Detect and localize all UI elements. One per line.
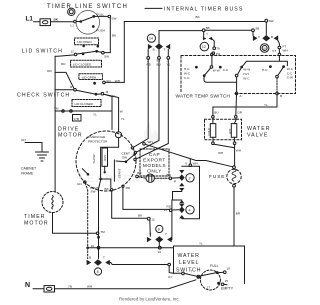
- wire motor top bus: [101, 146, 119, 148]
- node temp top terminal 7A: [211, 53, 214, 56]
- wire cam6 diamond down: [158, 243, 160, 247]
- node BU: [212, 110, 219, 118]
- svg-text:12: 12: [202, 45, 206, 49]
- label START: [117, 168, 121, 178]
- label DRIVE MOTOR: [58, 127, 83, 139]
- contact temp dot A2: [219, 66, 222, 69]
- svg-text:GY: GY: [168, 275, 172, 279]
- svg-text:9: 9: [185, 161, 187, 165]
- svg-text:15: 15: [225, 279, 229, 283]
- label CENT SW lower: [90, 186, 99, 194]
- node SW buss end: [265, 19, 274, 23]
- label LID CLOSED: [73, 63, 92, 67]
- wire SW to cam10: [265, 22, 267, 35]
- cam8 contacts: [87, 259, 110, 265]
- overload protector pill: [115, 132, 121, 138]
- svg-text:VALVE: VALVE: [247, 133, 268, 139]
- wire motor feed RD: [134, 59, 149, 147]
- wire cap dashed left: [138, 177, 146, 178]
- wire temp A to valve OR: [235, 95, 238, 116]
- svg-text:SW: SW: [91, 189, 96, 193]
- cam 10 group: [260, 44, 269, 53]
- label LID CLOSED: [75, 102, 94, 106]
- contact cam12 pair: [203, 37, 212, 41]
- wire left drop lid switch: [55, 55, 74, 56]
- svg-text:17B: 17B: [74, 117, 79, 121]
- svg-text:N: N: [25, 282, 30, 289]
- svg-text:2: 2: [189, 176, 191, 180]
- node N: [25, 282, 30, 289]
- wire motor to fuse WH: [145, 144, 233, 167]
- svg-text:YL: YL: [112, 94, 116, 98]
- wire FT to temp box: [278, 49, 280, 53]
- wire TM branch: [55, 110, 112, 112]
- wire N to connector: [33, 288, 44, 290]
- wire temp internal bus: [204, 77, 237, 82]
- label CHECK SWITCH: [17, 92, 70, 98]
- water temp switch box: [181, 56, 296, 94]
- svg-text:16: 16: [227, 266, 231, 270]
- label WATER VALVE: [247, 126, 271, 139]
- svg-text:FT: FT: [273, 49, 277, 53]
- node temp top terminal FT: [278, 53, 281, 56]
- node temp sw1 contact: [210, 66, 213, 69]
- wire motor RD to 27: [123, 188, 169, 210]
- svg-text:START: START: [117, 168, 121, 178]
- capacitor C1: [146, 174, 154, 182]
- wire M feed into pill: [104, 94, 119, 147]
- contact temp sw3 dot: [282, 65, 285, 68]
- svg-text:SLOW: SLOW: [92, 154, 96, 163]
- label BK: [138, 213, 143, 217]
- svg-text:7: 7: [165, 232, 167, 236]
- wire internal timer buss: [124, 21, 264, 23]
- wire valve bottoms: [213, 137, 235, 142]
- node SW: [108, 15, 116, 20]
- label 7: [103, 255, 105, 259]
- svg-text:EMPTY: EMPTY: [221, 286, 234, 290]
- label temp cluster mid: [243, 68, 250, 81]
- svg-text:T: T: [258, 35, 260, 39]
- wire temp B stub dashed: [276, 78, 278, 92]
- svg-text:L1: L1: [26, 16, 34, 23]
- label temp cluster right: [287, 67, 294, 79]
- svg-text:RD: RD: [147, 62, 152, 66]
- svg-text:GN: GN: [77, 182, 82, 186]
- svg-text:BR: BR: [137, 171, 142, 175]
- wire contact to M: [97, 93, 101, 95]
- wire SW down: [104, 18, 110, 53]
- svg-text:RD: RD: [126, 186, 131, 190]
- label temp HC: [262, 68, 268, 72]
- node L1 terminal: [71, 20, 77, 27]
- wire GN drop: [85, 183, 87, 259]
- bracket cam2 cam4: [173, 192, 182, 201]
- label WH: [218, 151, 223, 155]
- switch wiper temp1: [205, 68, 211, 75]
- svg-text:TIMER: TIMER: [24, 214, 46, 220]
- svg-text:WATER: WATER: [247, 126, 271, 132]
- svg-text:OR: OR: [237, 110, 242, 114]
- wire cam8 right to WL: [109, 263, 181, 274]
- svg-text:BR: BR: [167, 173, 172, 177]
- svg-text:27: 27: [164, 208, 168, 212]
- svg-text:PUSH: PUSH: [96, 28, 105, 32]
- svg-text:12: 12: [151, 217, 155, 221]
- label WH: [87, 284, 92, 288]
- svg-text:16: 16: [158, 250, 162, 254]
- label YL: [93, 112, 97, 116]
- svg-text:FULL: FULL: [210, 264, 219, 268]
- svg-text:5B: 5B: [206, 26, 210, 30]
- cam number 0: [68, 8, 75, 15]
- node FT: [273, 45, 288, 53]
- svg-text:SW: SW: [269, 19, 274, 23]
- svg-text:17: 17: [207, 286, 211, 290]
- wire cam6 right up: [171, 200, 174, 240]
- wire cap dashed right: [155, 177, 170, 179]
- label LID SWITCH: [22, 49, 63, 55]
- wire RD branch to check switch: [55, 72, 74, 88]
- bracket contacts: [179, 188, 184, 203]
- label T: [164, 47, 166, 51]
- ground cabinet frame: [36, 152, 49, 161]
- wire motor lower left: [82, 169, 88, 175]
- svg-text:MOTOR: MOTOR: [24, 221, 49, 227]
- svg-text:9: 9: [150, 232, 152, 236]
- wire 5B2 to cam10 left: [252, 32, 254, 36]
- timer line switch rotary: [76, 10, 100, 34]
- wire 5B down to cam12: [203, 32, 205, 37]
- node motor WH terminal: [143, 143, 146, 146]
- node motor feed1 terminal: [131, 147, 133, 149]
- switch wiper cent: [116, 155, 134, 162]
- wire RD27 to cam4: [172, 209, 179, 211]
- svg-text:WH: WH: [236, 148, 241, 152]
- svg-text:PROTECTOR: PROTECTOR: [88, 139, 108, 143]
- node 15: [221, 279, 228, 286]
- svg-text:Rendered by LeadVenture, Inc.: Rendered by LeadVenture, Inc.: [119, 297, 180, 302]
- wire GY into pivot: [184, 273, 197, 276]
- label BK on buss: [196, 15, 201, 19]
- wire fuse down: [233, 187, 235, 246]
- svg-text:BU: BU: [214, 110, 218, 114]
- wire motor BK to 12: [101, 179, 148, 218]
- cam14 contacts: [148, 43, 170, 49]
- contact GN bus dot: [86, 246, 89, 249]
- svg-text:FUSE: FUSE: [209, 174, 225, 180]
- connector neutral: [44, 286, 55, 292]
- svg-text:YL: YL: [264, 103, 268, 107]
- svg-text:L1: L1: [71, 24, 75, 28]
- drive motor dashed circle: [76, 131, 136, 191]
- node TM terminals: [62, 110, 73, 113]
- contact cent dot: [133, 153, 136, 156]
- svg-text:W-W: W-W: [243, 68, 250, 72]
- water level switch box: [174, 246, 245, 284]
- node M: [101, 90, 109, 95]
- svg-text:WATER: WATER: [178, 253, 200, 259]
- wire motor feed YL: [136, 59, 168, 159]
- wire valve left to WH9: [214, 144, 234, 147]
- svg-text:C-W: C-W: [287, 76, 293, 80]
- node SW lid: [102, 51, 110, 58]
- title TIMER LINE SWITCH: [47, 4, 128, 10]
- svg-text:4: 4: [189, 208, 191, 212]
- svg-text:WH: WH: [193, 161, 198, 165]
- node GY terminal: [168, 263, 173, 278]
- svg-text:WH: WH: [218, 151, 223, 155]
- svg-text:INTERNAL TIMER BUSS: INTERNAL TIMER BUSS: [164, 7, 243, 13]
- label WATER LEVEL SWITCH: [176, 253, 201, 273]
- svg-text:LID CLOSED: LID CLOSED: [73, 63, 92, 67]
- wire connector to L1 terminal: [51, 21, 74, 23]
- svg-text:YL: YL: [199, 241, 203, 245]
- label LID OPEN: [82, 76, 96, 80]
- node 16 junction left: [91, 244, 100, 249]
- svg-text:CABINET: CABINET: [21, 167, 37, 171]
- svg-text:M: M: [106, 90, 109, 94]
- svg-text:RES: RES: [103, 155, 107, 161]
- timer motor coil: [52, 196, 53, 210]
- wire temp sw2 stem: [236, 77, 238, 82]
- label Y: [206, 32, 208, 36]
- label RD: [122, 185, 124, 187]
- fuse element: [232, 169, 236, 181]
- lid switch open box: [75, 38, 99, 45]
- node cam14 t3: [167, 57, 171, 67]
- node temp sw2 pivot: [235, 74, 238, 77]
- node BR right: [167, 173, 177, 183]
- wire full to 16: [219, 271, 224, 273]
- svg-text:8: 8: [97, 270, 99, 274]
- fuse: [227, 169, 241, 183]
- label LID OPEN: [77, 40, 91, 44]
- wire motor feed BU: [137, 59, 159, 152]
- connector (line fuse) L1: [40, 19, 51, 26]
- node valve bottom left: [212, 142, 215, 145]
- label YL: [121, 117, 125, 121]
- svg-text:LID CLOSED: LID CLOSED: [75, 102, 94, 106]
- svg-text:W-C: W-C: [243, 76, 250, 80]
- svg-text:EXPORT: EXPORT: [143, 158, 166, 164]
- wire cam10 right to FT: [278, 40, 280, 46]
- svg-text:CHECK SWITCH: CHECK SWITCH: [17, 92, 70, 98]
- cam10 contacts: [253, 35, 278, 41]
- node TM terminal lower: [96, 230, 105, 235]
- svg-text:SW: SW: [122, 156, 127, 160]
- label OVERLOAD PROTECTOR: [88, 135, 108, 143]
- svg-text:T: T: [164, 47, 166, 51]
- label CENT SW: [122, 152, 131, 160]
- label BK: [112, 34, 117, 38]
- node motor feed3 terminal: [134, 158, 136, 160]
- cam 6 group: [156, 225, 163, 232]
- node GN motor: [77, 181, 86, 186]
- node RD27: [164, 205, 172, 213]
- node OR: [235, 110, 243, 118]
- label SLOW: [92, 154, 96, 163]
- wire motor center bottom down: [99, 180, 101, 259]
- cam 2: [186, 174, 194, 182]
- label 7: [165, 232, 167, 236]
- svg-text:B: B: [89, 255, 91, 259]
- node WL pivot: [197, 275, 200, 278]
- wire temp upper link: [243, 56, 288, 66]
- node cam14 t1: [147, 57, 152, 67]
- node L1: [26, 16, 34, 23]
- pressure dome dashed: [200, 270, 220, 290]
- connector 17B box: [73, 115, 82, 122]
- wire 16 bus: [88, 247, 174, 249]
- wire L1 to connector: [34, 21, 41, 23]
- node 16 WL: [224, 266, 231, 273]
- node fuse top: [233, 166, 236, 169]
- wire buss corner down: [123, 22, 125, 83]
- contact temp sw1 pivot: [203, 74, 206, 77]
- svg-text:B: B: [280, 94, 282, 98]
- svg-text:14: 14: [149, 37, 153, 41]
- coil cold: [207, 124, 216, 138]
- node SO: [103, 79, 120, 84]
- wire terminal to wiper root: [76, 21, 80, 23]
- svg-text:BR: BR: [236, 212, 241, 216]
- node 16: [158, 246, 162, 254]
- svg-text:12: 12: [71, 49, 75, 53]
- contact FULL: [210, 264, 219, 274]
- contact temp sw2 dot: [240, 66, 243, 69]
- svg-text:FRAME: FRAME: [21, 172, 34, 176]
- svg-text:LID OPEN: LID OPEN: [82, 76, 96, 80]
- label temp cluster left: [184, 67, 191, 80]
- wire timer motor down: [53, 213, 97, 234]
- wire empty stub: [224, 283, 227, 286]
- water valve box: [205, 119, 242, 140]
- contact cent pivot: [125, 160, 128, 163]
- svg-text:RD: RD: [47, 69, 52, 73]
- svg-text:T: T: [103, 255, 105, 259]
- label BK: [54, 18, 59, 22]
- svg-text:H-H: H-H: [243, 72, 249, 76]
- svg-text:W: W: [120, 109, 123, 113]
- svg-text:Y: Y: [206, 32, 208, 36]
- svg-text:TM: TM: [54, 106, 59, 110]
- node WH9 terminal: [185, 161, 197, 166]
- svg-text:BK: BK: [54, 18, 59, 22]
- wire res bottom: [104, 166, 106, 171]
- switch wiper WL full: [200, 273, 216, 276]
- wire M down motor feed: [104, 94, 112, 129]
- svg-text:HOT: HOT: [228, 128, 232, 134]
- label W: [112, 94, 123, 113]
- svg-text:LEVEL: LEVEL: [179, 260, 199, 266]
- cam4 contacts: [179, 204, 185, 219]
- wire BR to cam2: [172, 177, 179, 179]
- svg-text:6: 6: [158, 228, 160, 232]
- node fuse bottom: [233, 184, 236, 187]
- svg-text:LEADVENTURE: LEADVENTURE: [78, 173, 177, 185]
- wire cam12 to 7A terminal: [212, 39, 214, 47]
- svg-text:TM: TM: [100, 230, 105, 234]
- label B: [271, 35, 273, 39]
- wire GN ground: [25, 143, 42, 152]
- wire into check pivot: [55, 89, 74, 91]
- svg-text:7: 7: [191, 269, 193, 273]
- node WL GY: [182, 269, 193, 274]
- label INTERNAL TIMER BUSS: [164, 7, 243, 13]
- label CAP EXPORT MODELS ONLY: [143, 152, 166, 175]
- label T: [258, 35, 260, 39]
- svg-text:RD: RD: [61, 62, 66, 66]
- label temp WW: [213, 69, 220, 73]
- wire SO to buss drop: [105, 81, 124, 83]
- svg-text:B: B: [271, 35, 273, 39]
- node 5B2: [252, 27, 260, 32]
- label WH: [236, 148, 241, 152]
- wire temp A stub: [236, 82, 238, 92]
- label 7N: [68, 284, 72, 288]
- coil hot: [228, 124, 237, 138]
- svg-text:10: 10: [262, 46, 266, 50]
- cam6 contacts: [147, 236, 172, 242]
- label TM: [54, 106, 59, 110]
- timer rect cams 2 4: [182, 166, 200, 219]
- node PU terminal: [212, 52, 220, 56]
- svg-text:WH: WH: [87, 284, 92, 288]
- label 9: [150, 232, 152, 236]
- node check pivot: [70, 85, 77, 91]
- svg-text:WH: WH: [283, 48, 288, 52]
- node 5B junction: [202, 26, 209, 31]
- svg-text:W-W: W-W: [213, 69, 220, 73]
- resistor RES: [102, 148, 108, 166]
- label BR: [236, 212, 241, 216]
- label YL: [199, 241, 203, 245]
- wire left vertical main: [54, 56, 56, 191]
- contact lid closed dots: [82, 50, 99, 55]
- switch wiper check: [76, 90, 94, 94]
- svg-text:P: P: [174, 179, 176, 183]
- wire N line: [55, 280, 197, 289]
- label B: [153, 47, 155, 51]
- label WATER TEMP SWITCH: [174, 92, 234, 98]
- wire slow winding: [100, 147, 102, 177]
- label RD: [61, 62, 66, 66]
- svg-text:TIMER LINE SWITCH: TIMER LINE SWITCH: [47, 4, 128, 10]
- cam 8 group: [94, 268, 101, 275]
- node temp sw3 pivot: [276, 75, 279, 78]
- cap export models only box: [140, 149, 169, 176]
- svg-text:C-C: C-C: [223, 68, 229, 72]
- svg-text:5B: 5B: [256, 27, 260, 31]
- switch wiper temp2: [238, 68, 242, 74]
- watermark leadventure: [78, 122, 177, 185]
- wire valve right to fuse: [234, 145, 236, 166]
- svg-text:I2: I2: [70, 85, 73, 89]
- wire 5B to 5B2: [205, 29, 251, 31]
- svg-text:B: B: [153, 47, 155, 51]
- wire motor bottom BK terminal: [105, 187, 113, 191]
- svg-text:WH: WH: [148, 140, 153, 144]
- wire start winding: [113, 160, 115, 181]
- label CABINET FRAME: [21, 167, 37, 176]
- contact PULL: [92, 13, 104, 18]
- svg-text:MODELS: MODELS: [143, 163, 166, 169]
- contact temp dot A1: [195, 66, 198, 69]
- svg-text:CAP: CAP: [149, 152, 160, 158]
- label 17: [207, 286, 211, 290]
- label RD: [47, 69, 52, 73]
